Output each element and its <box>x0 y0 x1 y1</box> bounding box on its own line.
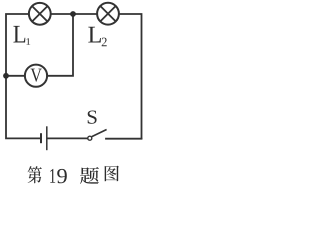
lamp L1 <box>29 3 51 25</box>
label S <box>88 110 97 123</box>
wire: left rail lower segment, bottom-left to battery <box>6 76 40 139</box>
node: top junction dot <box>70 11 76 17</box>
caption char 图 <box>105 166 119 182</box>
wire: switch to bottom-right corner <box>106 138 142 140</box>
lamp L2 <box>97 3 119 25</box>
label L2 <box>88 27 106 46</box>
wire: battery to switch pivot <box>48 137 88 139</box>
battery long plate <box>46 126 48 150</box>
wire: top right from L2, right rail down <box>120 14 142 138</box>
switch blade <box>92 130 107 137</box>
voltmeter <box>25 65 47 87</box>
caption text 19 <box>50 169 67 183</box>
wire: left rail top segment and top-left to lamp L1 <box>6 14 28 76</box>
node: left junction dot <box>3 73 9 79</box>
caption char 题 <box>80 167 99 184</box>
caption char 第 <box>28 166 42 183</box>
wire: voltmeter to vertical drop, up to top node <box>47 14 73 76</box>
switch pivot contact <box>88 136 92 140</box>
wire: top middle L1 to L2 <box>52 13 97 15</box>
battery short plate <box>40 133 42 143</box>
label L1 <box>13 26 30 45</box>
wire: left node to voltmeter <box>6 75 25 77</box>
